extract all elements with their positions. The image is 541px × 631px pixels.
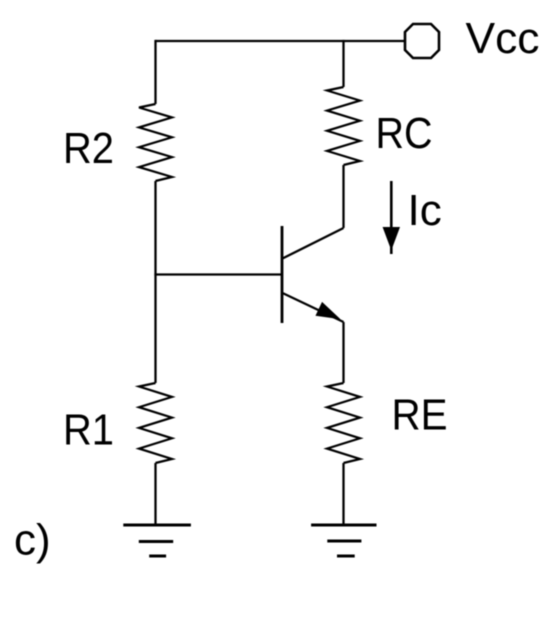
transistor Q1 collector lead xyxy=(283,228,344,259)
svg-text:RC: RC xyxy=(376,109,433,158)
svg-text:Vcc: Vcc xyxy=(466,14,540,63)
ground (right) xyxy=(311,525,376,556)
wire : R1 to left ground xyxy=(154,463,156,525)
resistor RE xyxy=(327,383,360,463)
svg-text:RE: RE xyxy=(392,391,448,440)
resistor R2 xyxy=(139,104,172,181)
wire : emitter down to RE xyxy=(342,322,344,383)
wire : left branch, R2 down through base node to R1 xyxy=(154,181,156,383)
resistor R1 xyxy=(139,383,172,463)
current arrow Ic xyxy=(383,181,399,254)
wire : top rail from left branch to Vcc terminal xyxy=(156,40,406,42)
svg-text:Ic: Ic xyxy=(408,186,442,235)
svg-text:c): c) xyxy=(14,516,51,565)
svg-text:R2: R2 xyxy=(63,124,114,173)
node Vcc terminal circle xyxy=(405,24,439,58)
ground (left) xyxy=(123,525,191,556)
wire : RE to right ground xyxy=(342,463,344,525)
transistor Q1 base bar xyxy=(281,226,284,323)
wire : base wire from divider node xyxy=(154,273,282,275)
resistor RC xyxy=(327,87,360,165)
transistor Q1 emitter arrowhead xyxy=(316,303,339,319)
wire : RC down to collector bend xyxy=(342,165,344,228)
transistor Q1 emitter lead xyxy=(283,293,344,322)
svg-text:R1: R1 xyxy=(63,406,114,455)
wire : right branch, top rail down to RC xyxy=(342,40,344,87)
wire : left branch, top rail down to R2 xyxy=(154,40,156,104)
